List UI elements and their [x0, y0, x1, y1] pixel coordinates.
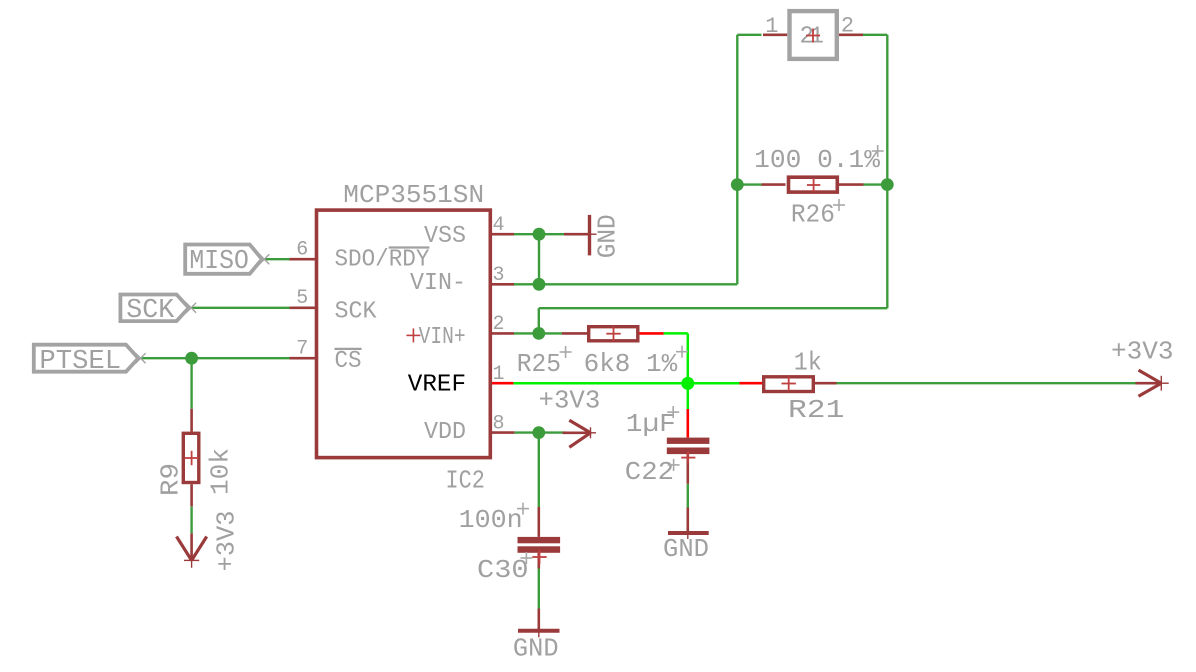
wire net SCK: [191, 307, 290, 309]
svg-text:VDD: VDD: [424, 419, 466, 446]
junction node pin8: [532, 426, 545, 439]
wire net N$4 right vertical: [886, 35, 888, 308]
pin R21 left highlighted: [740, 382, 763, 385]
junction node pin3: [533, 278, 546, 291]
svg-text:1: 1: [765, 14, 778, 39]
junction node R26 right: [881, 178, 894, 191]
svg-text:CS: CS: [335, 348, 362, 375]
supply +3V3 arrow down below R9: [177, 533, 207, 567]
wire C22 to GND2: [687, 484, 689, 508]
svg-text:MISO: MISO: [189, 247, 248, 277]
wire net VREF highlighted down to C22: [687, 383, 690, 409]
wire net +3V3 R21 to right arrow: [837, 382, 1136, 384]
svg-text:C22: C22: [625, 457, 674, 487]
svg-text:1µF: 1µF: [626, 409, 676, 439]
svg-text:VSS: VSS: [424, 223, 466, 250]
wire net +3V3 pin8 to arrow: [539, 431, 567, 433]
wire net VREF highlighted pin1 run: [513, 382, 687, 385]
svg-text:3: 3: [493, 264, 505, 287]
wire net VREF highlighted vertical: [687, 333, 690, 383]
svg-text:2: 2: [493, 313, 505, 336]
svg-text:100n: 100n: [459, 505, 523, 535]
resistor R21: [764, 376, 837, 391]
wire C30 to GND3: [538, 569, 540, 609]
svg-text:GND: GND: [663, 534, 709, 564]
svg-text:100 0.1%: 100 0.1%: [754, 145, 880, 175]
wire net +3V3 pin8 down to C30: [538, 433, 540, 507]
svg-text:C30: C30: [477, 555, 529, 585]
svg-text:7: 7: [296, 338, 308, 361]
svg-text:VIN+: VIN+: [419, 324, 466, 351]
wire net VREF highlighted to R21: [688, 382, 740, 385]
svg-text:VIN-: VIN-: [410, 270, 466, 297]
junction node VREF highlighted: [681, 377, 694, 390]
pin IC2 pin6 stub: [290, 258, 317, 261]
wire net N$3 pin4 to GND1: [514, 233, 564, 235]
svg-text:2: 2: [841, 14, 854, 39]
pin IC2 pin7 stub: [290, 357, 317, 360]
wire net N$4 horizontal to pin2: [539, 307, 888, 309]
svg-text:SCK: SCK: [126, 296, 175, 326]
ground GND1 rotated near pin4: [564, 215, 597, 256]
svg-text:PTSEL: PTSEL: [39, 347, 121, 377]
wire R26 left lead: [737, 183, 761, 185]
svg-text:+3V3: +3V3: [1111, 337, 1174, 367]
wire net N$4 top-right horizontal: [863, 34, 887, 36]
junction node PTSEL/R9: [185, 352, 198, 365]
svg-text:MCP3551SN: MCP3551SN: [343, 180, 484, 210]
svg-text:VREF: VREF: [408, 372, 466, 399]
svg-text:10k: 10k: [206, 448, 236, 495]
wire net VREF highlighted from R25 corner: [664, 332, 688, 335]
pin IC2 pin3 stub: [489, 283, 514, 286]
pin IC2 pin8 stub: [489, 431, 514, 434]
wire net N$4 pin2 to R25: [539, 332, 562, 334]
resistor R25: [562, 327, 638, 341]
flag PTSEL: [34, 345, 146, 377]
svg-text:1: 1: [810, 24, 824, 51]
pin IC2 pin5 stub: [290, 306, 317, 309]
flag MISO: [185, 245, 269, 278]
IC op-amp ADC IC2 MCP3551SN body: [317, 210, 491, 458]
svg-text:SCK: SCK: [335, 298, 378, 325]
wire net N$4 down to pin2: [538, 308, 540, 333]
jumper SJ 21 top box: [763, 11, 863, 59]
wire net PTSEL: [141, 357, 290, 359]
svg-text:GND: GND: [593, 214, 623, 258]
pin IC2 pin2 stub: [489, 332, 514, 335]
svg-text:R9: R9: [156, 463, 186, 496]
wire net N$4 pin2 stub extension: [514, 332, 539, 334]
pin C22 top highlighted: [686, 409, 689, 438]
resistor R9 vertical: [183, 409, 199, 507]
svg-text:R25: R25: [517, 349, 561, 379]
wire R26 right lead: [864, 183, 888, 185]
wire net N$3 pin3 stub extension: [514, 283, 539, 285]
svg-text:6: 6: [296, 239, 308, 262]
ground GND3 below C30: [518, 609, 560, 638]
svg-text:1: 1: [493, 363, 505, 386]
svg-text:R21: R21: [788, 395, 844, 425]
wire net N$3 pin3 horizontal run: [539, 283, 737, 285]
capacitor C22: [667, 438, 710, 484]
flag SCK: [120, 295, 196, 326]
pin R25 right highlighted: [640, 332, 664, 335]
pin IC2 pin4 stub: [489, 233, 514, 236]
wire net PTSEL down to R9: [190, 358, 192, 409]
svg-text:R26: R26: [791, 199, 835, 229]
svg-text:4: 4: [493, 214, 505, 237]
junction node R26 left: [731, 178, 744, 191]
capacitor C30: [518, 507, 561, 569]
svg-text:8: 8: [493, 412, 505, 435]
resistor R26: [762, 177, 864, 192]
wire net MISO: [264, 258, 290, 260]
wire net N$3 top-left horizontal: [737, 34, 761, 36]
supply +3V3 arrow right after R21: [1136, 370, 1169, 396]
ground GND2 below C22: [668, 508, 709, 540]
svg-text:GND: GND: [513, 634, 559, 664]
svg-text:+3V3: +3V3: [211, 511, 241, 572]
svg-text:1k: 1k: [794, 348, 822, 378]
junction node pin4: [533, 228, 546, 241]
svg-text:+3V3: +3V3: [539, 386, 601, 416]
pin IC2 pin1 VREF highlighted stub: [490, 382, 513, 385]
junction node pin2: [532, 327, 545, 340]
svg-text:6k8 1%: 6k8 1%: [584, 349, 678, 379]
wire net N$3 left vertical to jumper: [736, 35, 738, 284]
wire net +3V3 pin8 stub extension: [514, 431, 538, 433]
svg-text:5: 5: [296, 287, 308, 310]
supply +3V3 arrow right at VDD: [563, 420, 597, 447]
svg-text:IC2: IC2: [446, 466, 485, 496]
wire net N$3 vertical pin4-pin3: [538, 234, 540, 284]
wire R9 bottom to +3V3: [190, 506, 192, 533]
